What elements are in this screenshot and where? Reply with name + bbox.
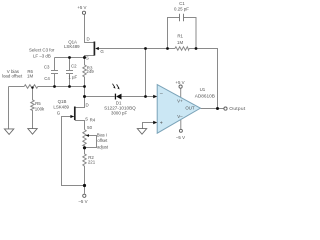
terminal -5V (bottom) <box>83 194 86 197</box>
svg-text:+5 V: +5 V <box>175 80 184 85</box>
op-amp U1 <box>157 85 200 134</box>
wiper of R4 <box>85 136 97 148</box>
wire C1 loop <box>168 18 197 49</box>
wire Q1B drain lead <box>75 97 85 108</box>
op-amp input arrow (non-inverting) <box>153 121 157 125</box>
svg-text:0.25 pF: 0.25 pF <box>174 7 189 12</box>
svg-text:+5 V: +5 V <box>77 5 86 10</box>
terminal +5V (Q1A) <box>82 11 85 14</box>
ground (op-amp +) <box>137 129 146 135</box>
svg-text:G: G <box>57 111 61 116</box>
capacitor C2 <box>66 58 73 87</box>
svg-text:1M: 1M <box>27 74 33 79</box>
node dot source <box>83 56 86 59</box>
wire Q1A source lead <box>85 56 95 58</box>
wire Q1B source lead <box>75 121 85 130</box>
svg-text:Bias I: Bias I <box>97 133 107 138</box>
node dot C2 bottom <box>68 85 71 88</box>
node dot -5V rail <box>83 184 86 187</box>
svg-text:G: G <box>100 49 104 54</box>
svg-text:100k: 100k <box>35 106 45 111</box>
svg-text:R1: R1 <box>177 33 183 38</box>
svg-text:adjust: adjust <box>97 145 109 150</box>
ground (R5) <box>28 129 37 135</box>
svg-text:C4: C4 <box>44 76 50 81</box>
node dot C3 bottom <box>53 85 56 88</box>
node dot R5 tap <box>31 86 33 88</box>
wire left ground drop <box>8 87 10 129</box>
resistor R2 <box>83 148 86 186</box>
terminal +5V (op-amp) <box>179 85 182 88</box>
svg-text:D: D <box>86 103 89 108</box>
wire feedback to inverting node <box>145 49 147 97</box>
wire top rail source node <box>55 57 85 59</box>
node dot output <box>216 107 219 110</box>
wire +5V to Q1A drain <box>85 15 95 43</box>
wire V+ stub <box>180 88 182 98</box>
resistor R5 <box>31 87 34 129</box>
resistor R4 <box>83 130 86 148</box>
photodiode D1 <box>113 84 122 100</box>
wire photodiode rail <box>85 96 154 98</box>
wire output <box>200 108 224 110</box>
resistor R1 <box>175 47 189 50</box>
wiper arrow of R4 <box>86 134 89 137</box>
svg-text:Q1B: Q1B <box>58 99 67 104</box>
svg-text:OUT: OUT <box>185 106 195 111</box>
svg-text:3000 pF: 3000 pF <box>111 110 127 115</box>
terminal -5V (op-amp) <box>179 129 182 132</box>
wire Q1A gate / feedback rail <box>98 49 218 109</box>
node dot R3 bottom <box>83 85 86 88</box>
terminal output <box>224 107 227 110</box>
svg-text:C2: C2 <box>71 64 77 69</box>
wire bottom rail <box>9 86 85 88</box>
svg-text:–5 V: –5 V <box>176 135 185 140</box>
svg-text:50: 50 <box>87 125 92 130</box>
svg-text:–: – <box>160 91 163 97</box>
svg-text:1 µF: 1 µF <box>68 74 77 79</box>
svg-text:LF –3 dB: LF –3 dB <box>33 53 51 58</box>
svg-text:U1: U1 <box>200 87 206 92</box>
transistor Q1B <box>70 107 74 121</box>
node dot C1 right <box>195 47 198 50</box>
svg-text:–5 V: –5 V <box>78 199 87 204</box>
capacitor C3 <box>51 58 58 87</box>
node dot photodiode anode <box>83 95 86 98</box>
resistor R6 <box>24 85 38 89</box>
svg-text:AD8610B: AD8610B <box>195 94 215 99</box>
resistor R3 <box>83 58 86 97</box>
op-amp input arrow (inverting) <box>153 95 157 99</box>
svg-text:offset: offset <box>97 138 108 143</box>
wire Q1B gate loop <box>62 117 85 186</box>
wire V- stub <box>180 119 182 130</box>
svg-text:V–: V– <box>177 114 183 119</box>
capacitor C1 <box>180 14 184 21</box>
node dot R4 wiper <box>83 146 86 149</box>
svg-text:+: + <box>160 121 163 127</box>
svg-text:Select C3 for: Select C3 for <box>29 47 55 52</box>
svg-text:R4: R4 <box>90 118 96 123</box>
svg-text:C1: C1 <box>179 1 185 6</box>
svg-text:1M: 1M <box>177 40 183 45</box>
svg-text:C3: C3 <box>44 64 50 69</box>
svg-text:S: S <box>85 116 88 121</box>
node dot C2 top <box>68 56 71 59</box>
svg-text:221: 221 <box>88 160 96 165</box>
node dot C1 left <box>166 47 169 50</box>
wire to -5V terminal <box>84 186 86 194</box>
svg-text:V+: V+ <box>177 99 183 104</box>
svg-text:LSK489: LSK489 <box>64 44 80 49</box>
svg-text:LSK489: LSK489 <box>53 105 69 110</box>
wire op-amp + input to ground <box>143 123 154 129</box>
node dot inverting input <box>144 95 147 98</box>
svg-text:D: D <box>87 36 90 41</box>
svg-text:249: 249 <box>86 69 94 74</box>
svg-text:S: S <box>86 55 89 60</box>
ground (left, V bias) <box>4 129 13 135</box>
node dot feedback left <box>144 47 147 50</box>
svg-text:Output: Output <box>229 106 246 112</box>
transistor Q1A <box>94 42 98 56</box>
svg-text:R5: R5 <box>35 101 41 106</box>
svg-text:load offset: load offset <box>2 74 23 79</box>
